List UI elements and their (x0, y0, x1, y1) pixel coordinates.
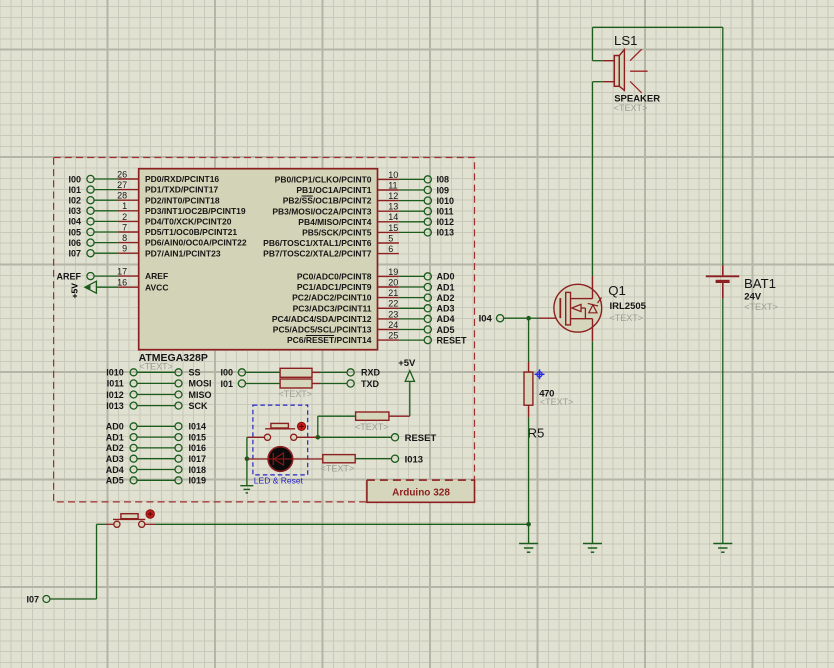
svg-text:22: 22 (388, 299, 398, 309)
net wire AD0 to I014 (106, 422, 206, 432)
chip pin 26 PD0 / terminal I00 (68, 169, 219, 184)
svg-text:MISO: MISO (189, 390, 212, 400)
svg-text:LED & Reset: LED & Reset (254, 475, 304, 485)
push button (bottom) (113, 510, 154, 528)
junction node reset (316, 435, 321, 440)
+5V power flag (398, 358, 416, 381)
svg-text:PB4/MISO/PCINT4: PB4/MISO/PCINT4 (298, 217, 371, 227)
wire rail down to battery (722, 27, 724, 265)
speaker LS1 (614, 49, 647, 93)
svg-text:SS: SS (189, 368, 201, 378)
svg-text:I02: I02 (68, 196, 81, 206)
svg-text:6: 6 (388, 244, 393, 254)
chip pin 16 AVCC with +5V power flag (70, 278, 169, 299)
svg-text:+5V: +5V (70, 283, 80, 299)
svg-text:PD6/AIN0/OC0A/PCINT22: PD6/AIN0/OC0A/PCINT22 (145, 238, 247, 248)
terminal I07 (26, 594, 49, 604)
net wire AD4 to I018 (106, 465, 206, 475)
svg-text:AD5: AD5 (106, 476, 124, 486)
svg-text:19: 19 (388, 267, 398, 277)
svg-text:<TEXT>: <TEXT> (540, 397, 574, 407)
svg-text:AD0: AD0 (437, 272, 455, 282)
wire top rail (593, 26, 723, 28)
svg-text:I019: I019 (189, 476, 207, 486)
svg-text:AD0: AD0 (106, 422, 124, 432)
wire speaker to Q1 drain (592, 82, 594, 276)
LED & Reset grouping box (253, 405, 308, 475)
net wire AD1 to I015 (106, 432, 206, 442)
transistor Q1 IRL2505 (554, 284, 602, 332)
svg-text:I010: I010 (106, 368, 124, 378)
svg-text:AD3: AD3 (106, 454, 124, 464)
wire Q1 source down (592, 319, 594, 342)
resistor R5 470 (524, 372, 573, 440)
svg-text:I00: I00 (68, 174, 81, 184)
svg-text:24: 24 (388, 320, 398, 330)
svg-text:2: 2 (122, 212, 127, 222)
wire button right to junction (297, 436, 318, 438)
svg-text:16: 16 (117, 278, 127, 288)
chip pin 19 PC0 / terminal AD0 (297, 267, 455, 282)
svg-text:7: 7 (122, 222, 127, 232)
svg-text:I013: I013 (106, 401, 124, 411)
svg-text:AD4: AD4 (437, 314, 455, 324)
net wire I011 to MOSI (107, 379, 212, 389)
wire to LED anode (247, 458, 268, 460)
svg-text:RESET: RESET (437, 335, 468, 345)
wire junction down to R5 (528, 318, 530, 362)
svg-text:TXD: TXD (361, 379, 380, 389)
chip pin 20 PC1 / terminal AD1 (297, 277, 455, 292)
junction node gate/R5 (526, 316, 531, 321)
svg-text:<TEXT>: <TEXT> (355, 422, 389, 432)
wire speaker bottom terminal (593, 81, 615, 83)
svg-text:PB1/OC1A/PCINT1: PB1/OC1A/PCINT1 (296, 185, 371, 195)
terminal RESET (391, 433, 436, 444)
battery BAT1 24V (706, 265, 740, 298)
subcircuit dashed boundary box (54, 158, 475, 502)
svg-text:<TEXT>: <TEXT> (279, 389, 313, 399)
wire LED cathode to resistor (293, 458, 323, 460)
svg-text:24V: 24V (744, 292, 762, 303)
svg-text:I04: I04 (68, 217, 81, 227)
svg-text:I09: I09 (437, 185, 450, 195)
svg-text:PD0/RXD/PCINT16: PD0/RXD/PCINT16 (145, 174, 219, 184)
chip pin 6 PB7 (263, 244, 399, 259)
svg-text:AD3: AD3 (437, 304, 455, 314)
chip pin 25 PC6 / terminal RESET (287, 331, 467, 346)
net wire I013 to SCK (106, 401, 208, 411)
svg-text:RESET: RESET (405, 433, 437, 444)
svg-text:AVCC: AVCC (145, 282, 168, 292)
svg-text:I08: I08 (437, 175, 450, 185)
chip pin 7 PD5 / terminal I05 (68, 222, 237, 237)
svg-text:LS1: LS1 (614, 33, 637, 48)
svg-text:PD7/AIN1/PCINT23: PD7/AIN1/PCINT23 (145, 248, 221, 258)
chip pin 10 PB0 / terminal I08 (275, 170, 449, 185)
svg-text:+5V: +5V (398, 358, 416, 369)
resistor reset pull-up (318, 412, 410, 432)
ground (Q1 source) (583, 544, 602, 553)
svg-text:I03: I03 (68, 206, 81, 216)
svg-text:13: 13 (388, 202, 398, 212)
wire button left stub (105, 523, 114, 525)
svg-text:<TEXT>: <TEXT> (321, 464, 355, 474)
wire rail green (156, 523, 529, 525)
wire reset junction vertical (317, 416, 319, 437)
svg-text:PC1/ADC1/PCINT9: PC1/ADC1/PCINT9 (297, 282, 372, 292)
svg-text:11: 11 (388, 180, 397, 190)
svg-text:I014: I014 (189, 422, 207, 432)
svg-text:IRL2505: IRL2505 (610, 301, 647, 312)
svg-text:I07: I07 (26, 594, 39, 604)
svg-text:AD2: AD2 (106, 443, 124, 453)
wire button left (97, 523, 106, 525)
svg-text:PD2/INT0/PCINT18: PD2/INT0/PCINT18 (145, 195, 220, 205)
svg-text:PB5/SCK/PCINT5: PB5/SCK/PCINT5 (302, 228, 372, 238)
svg-text:AREF: AREF (145, 271, 168, 281)
chip pin 28 PD2 / terminal I02 (68, 191, 219, 206)
svg-text:I013: I013 (405, 454, 424, 465)
svg-text:AD4: AD4 (106, 465, 124, 475)
ground (led) (240, 486, 253, 493)
svg-text:PC3/ADC3/PCINT11: PC3/ADC3/PCINT11 (293, 303, 372, 313)
chip pin 1 PD3 / terminal I03 (68, 201, 245, 216)
svg-text:MOSI: MOSI (189, 379, 212, 389)
chip pin 8 PD6 / terminal I06 (68, 233, 246, 248)
svg-text:<TEXT>: <TEXT> (610, 313, 644, 323)
svg-text:I012: I012 (106, 390, 124, 400)
svg-text:PC4/ADC4/SDA/PCINT12: PC4/ADC4/SDA/PCINT12 (272, 314, 372, 324)
svg-text:AD2: AD2 (437, 293, 455, 303)
chip pin 9 PD7 / terminal I07 (68, 244, 220, 259)
chip pin 13 PB3 / terminal I011 (272, 202, 453, 217)
svg-text:<TEXT>: <TEXT> (139, 362, 173, 372)
chip pin 27 PD1 / terminal I01 (68, 180, 218, 195)
svg-text:RXD: RXD (361, 368, 381, 378)
resistor I00-RXD (220, 368, 380, 378)
svg-text:9: 9 (122, 244, 127, 254)
svg-text:8: 8 (122, 233, 127, 243)
wire button left to led column (247, 436, 265, 438)
svg-text:I07: I07 (68, 249, 81, 259)
svg-text:12: 12 (388, 191, 398, 201)
svg-text:<TEXT>: <TEXT> (614, 103, 648, 113)
wire vertical to I07 (96, 524, 98, 599)
svg-text:AD1: AD1 (106, 432, 124, 442)
wire junction to RESET terminal (318, 436, 392, 438)
wire R5 down to rail (528, 405, 530, 417)
wire led column vertical (246, 437, 248, 458)
svg-text:I011: I011 (107, 379, 124, 389)
svg-text:PD4/T0/XCK/PCINT20: PD4/T0/XCK/PCINT20 (145, 217, 232, 227)
svg-text:PC6/RESET/PCINT14: PC6/RESET/PCINT14 (287, 335, 372, 345)
svg-text:14: 14 (388, 212, 398, 222)
net wire AD5 to I019 (106, 476, 206, 486)
chip pin 24 PC5 / terminal AD5 (273, 320, 455, 335)
svg-text:26: 26 (117, 169, 127, 179)
chip pin 12 PB2 / terminal I010 (283, 191, 454, 206)
svg-text:I05: I05 (68, 227, 81, 237)
svg-text:5: 5 (388, 233, 393, 243)
svg-text:I04: I04 (479, 313, 493, 324)
svg-text:I013: I013 (437, 228, 455, 238)
chip pin 23 PC4 / terminal AD4 (272, 309, 455, 324)
svg-text:I016: I016 (189, 443, 207, 453)
svg-text:PB3/MOSI/OC2A/PCINT3: PB3/MOSI/OC2A/PCINT3 (272, 206, 371, 216)
svg-text:PD1/TXD/PCINT17: PD1/TXD/PCINT17 (145, 185, 218, 195)
svg-text:I06: I06 (68, 238, 81, 248)
svg-text:I012: I012 (437, 217, 455, 227)
resistor LED series (321, 455, 356, 474)
ground (rail) (519, 544, 538, 553)
svg-text:20: 20 (388, 277, 398, 287)
svg-text:BAT1: BAT1 (744, 276, 776, 291)
svg-text:I018: I018 (189, 465, 207, 475)
chip pin 15 PB5 / terminal I013 (302, 223, 454, 238)
chip pin 11 PB1 / terminal I09 (296, 180, 449, 195)
svg-text:AD5: AD5 (437, 325, 455, 335)
Arduino 328 title box (366, 480, 475, 502)
svg-text:PC0/ADC0/PCINT8: PC0/ADC0/PCINT8 (297, 272, 372, 282)
push button (reset) (264, 422, 305, 440)
ground (battery) (713, 544, 732, 553)
wire battery down (722, 299, 724, 544)
terminal I04 (479, 313, 504, 324)
chip pin 5 PB6 (263, 233, 399, 248)
svg-text:I01: I01 (220, 379, 233, 389)
terminal I013 (391, 454, 423, 465)
net wire I012 to MISO (106, 390, 211, 400)
svg-text:R5: R5 (528, 426, 545, 441)
wire led column to ground (246, 459, 248, 486)
net wire AD2 to I016 (106, 443, 206, 453)
junction node led (245, 456, 250, 461)
svg-text:Arduino 328: Arduino 328 (392, 487, 450, 498)
IC ATMEGA328P body (139, 169, 378, 350)
svg-text:PB0/ICP1/CLKO/PCINT0: PB0/ICP1/CLKO/PCINT0 (275, 175, 372, 185)
chip pin 14 PB4 / terminal I012 (298, 212, 454, 227)
chip pin 21 PC2 / terminal AD2 (292, 288, 454, 303)
svg-text:I011: I011 (437, 207, 454, 217)
svg-text:15: 15 (388, 223, 398, 233)
svg-text:21: 21 (388, 288, 398, 298)
wire button right to ground junction (145, 523, 156, 525)
svg-text:25: 25 (388, 331, 398, 341)
svg-text:PB7/TOSC2/XTAL2/PCINT7: PB7/TOSC2/XTAL2/PCINT7 (263, 249, 372, 259)
svg-text:I00: I00 (220, 368, 233, 378)
resistor I01-TXD (220, 379, 379, 389)
svg-text:10: 10 (388, 170, 398, 180)
svg-text:1: 1 (122, 201, 127, 211)
svg-text:I01: I01 (68, 185, 81, 195)
wire speaker top terminal (593, 60, 615, 62)
node marker (blue) (535, 369, 545, 379)
svg-text:SCK: SCK (189, 401, 209, 411)
svg-text:17: 17 (117, 267, 127, 277)
svg-text:AREF: AREF (57, 271, 82, 281)
svg-text:<TEXT>: <TEXT> (744, 302, 778, 312)
svg-text:PD5/T1/OC0B/PCINT21: PD5/T1/OC0B/PCINT21 (145, 227, 237, 237)
wire speaker top up (592, 27, 594, 60)
wire resistor to I013 terminal (355, 458, 391, 460)
svg-text:I015: I015 (189, 432, 207, 442)
LED D1 (268, 447, 293, 472)
svg-text:28: 28 (117, 191, 127, 201)
net wire AD3 to I017 (106, 454, 206, 464)
chip pin 17 AREF / terminal AREF (57, 267, 169, 282)
svg-text:23: 23 (388, 309, 398, 319)
junction node ground rail (526, 522, 531, 527)
wire junction to Q1 gate (529, 317, 540, 319)
wire junction to ground (528, 524, 530, 543)
svg-text:I017: I017 (189, 454, 207, 464)
net wire I010 to SS (106, 368, 200, 378)
svg-text:I010: I010 (437, 196, 455, 206)
svg-text:PD3/INT1/OC2B/PCINT19: PD3/INT1/OC2B/PCINT19 (145, 206, 246, 216)
svg-text:Q1: Q1 (608, 283, 626, 298)
wire +5V down (409, 381, 411, 416)
svg-text:AD1: AD1 (437, 282, 455, 292)
svg-text:PB2/SS/OC1B/PCINT2: PB2/SS/OC1B/PCINT2 (283, 196, 372, 206)
wire horizontal to I07 terminal (49, 598, 96, 600)
svg-text:27: 27 (117, 180, 127, 190)
svg-text:PB6/TOSC1/XTAL1/PCINT6: PB6/TOSC1/XTAL1/PCINT6 (263, 238, 372, 248)
chip pin 2 PD4 / terminal I04 (68, 212, 231, 227)
svg-text:PC5/ADC5/SCL/PCINT13: PC5/ADC5/SCL/PCINT13 (273, 325, 372, 335)
wire I04 to junction (504, 317, 529, 319)
svg-text:PC2/ADC2/PCINT10: PC2/ADC2/PCINT10 (292, 293, 372, 303)
chip pin 22 PC3 / terminal AD3 (293, 299, 455, 314)
